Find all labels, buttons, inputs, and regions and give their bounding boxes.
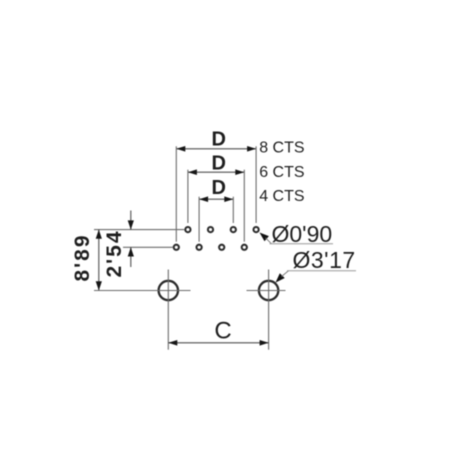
pin hole top row 2 [208,227,213,232]
svg-text:8 CTS: 8 CTS [259,140,304,157]
svg-text:C: C [214,318,231,345]
pin hole bottom row 2 [197,245,202,250]
svg-text:Ø3'17: Ø3'17 [293,247,356,273]
pin hole top row 4 [254,227,259,232]
extension line from top pin 4 to 8CTS dim [255,146,257,223]
extension line from top pin 3 to 4CTS dim [232,197,234,223]
dimension line 8'89 [96,230,102,291]
extension line from bottom pin 1 to 8CTS dim [175,146,177,241]
dimension line D (6 CTS) [188,169,244,175]
centerline vertical right hole [268,270,270,350]
dimension line 2'54 (outside arrows) [128,211,134,268]
pin hole top row 3 [231,227,236,232]
pin hole top row 1 [185,227,190,232]
leader Ø0'90 [260,233,334,244]
leader Ø3'17 [276,271,357,283]
svg-text:D: D [211,129,225,151]
svg-text:2'54: 2'54 [103,229,126,277]
centerline vertical left hole [167,270,169,350]
centerline horizontal left hole [94,290,191,292]
pin hole bottom row 4 [242,245,247,250]
extension line from top pin 1 to 6CTS dim [187,170,189,223]
extension line from bottom pin 4 to 6CTS dim [243,170,245,242]
mounting hole left [159,281,178,300]
svg-text:8'89: 8'89 [71,233,94,281]
pin hole bottom row 3 [219,245,224,250]
extension line from bottom pin 2 to 4CTS dim [198,197,200,242]
pin hole bottom row 1 [174,245,179,250]
svg-text:D: D [211,177,225,199]
svg-text:4 CTS: 4 CTS [259,188,304,205]
dimension line D (4 CTS) [199,196,233,202]
svg-text:Ø0'90: Ø0'90 [272,221,333,247]
dimension line C [168,340,268,346]
mounting hole right [259,281,278,300]
extension line top pin row (left) [94,229,184,231]
svg-text:6 CTS: 6 CTS [259,164,304,181]
centerline horizontal right hole [247,290,286,292]
extension line bottom pin row (left) [123,246,173,248]
svg-text:D: D [211,153,225,175]
dimension line D (8 CTS) [176,146,256,152]
